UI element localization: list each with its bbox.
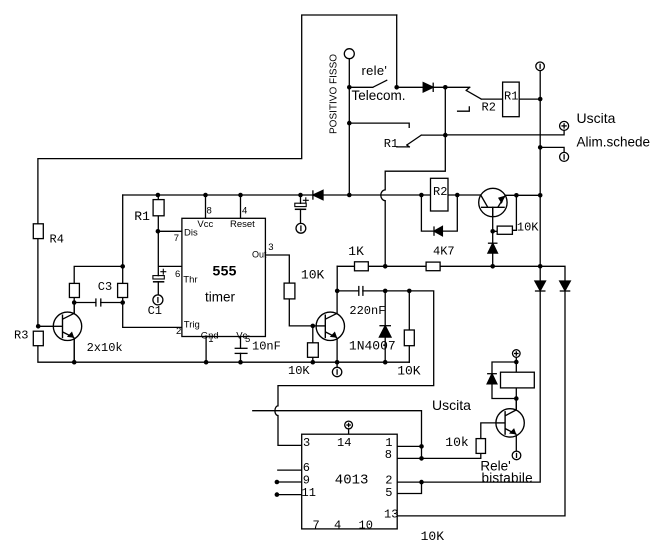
svg-text:555: 555 <box>213 263 237 279</box>
svg-text:10k: 10k <box>445 435 469 450</box>
svg-text:10K: 10K <box>517 221 539 235</box>
svg-text:Thr: Thr <box>183 275 197 286</box>
svg-text:R2: R2 <box>433 185 447 199</box>
svg-text:Reset: Reset <box>230 219 255 230</box>
svg-text:2x10k: 2x10k <box>87 341 123 355</box>
svg-text:R2: R2 <box>482 101 496 115</box>
svg-text:R4: R4 <box>50 233 64 247</box>
svg-text:Vcc: Vcc <box>197 219 213 230</box>
svg-text:Alim.schede: Alim.schede <box>577 135 651 150</box>
svg-text:3: 3 <box>268 242 273 253</box>
svg-text:R1: R1 <box>134 209 150 224</box>
svg-text:10nF: 10nF <box>252 340 281 354</box>
svg-text:R3: R3 <box>14 329 28 343</box>
svg-text:1: 1 <box>208 334 213 345</box>
svg-text:timer: timer <box>205 290 236 305</box>
svg-text:1N4007: 1N4007 <box>349 339 396 354</box>
svg-text:7: 7 <box>174 233 179 244</box>
svg-text:8: 8 <box>385 448 392 462</box>
svg-text:10K: 10K <box>301 268 325 283</box>
svg-text:11: 11 <box>302 486 316 500</box>
svg-text:10: 10 <box>359 519 373 533</box>
svg-text:3: 3 <box>303 436 310 450</box>
svg-text:bistabile: bistabile <box>482 470 533 485</box>
svg-text:2: 2 <box>176 326 181 337</box>
svg-text:8: 8 <box>207 206 212 217</box>
svg-text:4013: 4013 <box>335 473 369 489</box>
svg-text:Out: Out <box>252 250 267 260</box>
svg-text:R1: R1 <box>384 137 398 151</box>
svg-text:4K7: 4K7 <box>433 245 455 259</box>
svg-text:Uscita: Uscita <box>577 110 616 126</box>
svg-text:10K: 10K <box>421 529 445 544</box>
svg-text:220nF: 220nF <box>349 304 385 318</box>
svg-text:C3: C3 <box>98 280 112 294</box>
svg-text:Trig: Trig <box>184 320 200 331</box>
svg-text:7: 7 <box>313 519 320 533</box>
svg-text:POSITIVO FISSO: POSITIVO FISSO <box>329 54 340 134</box>
svg-text:10K: 10K <box>288 364 310 378</box>
svg-text:13: 13 <box>384 508 398 522</box>
svg-text:1K: 1K <box>348 244 364 259</box>
svg-text:10K: 10K <box>397 364 421 379</box>
svg-text:C1: C1 <box>148 304 162 318</box>
svg-text:Telecom.: Telecom. <box>352 88 406 103</box>
svg-text:rele': rele' <box>362 63 388 78</box>
svg-text:R1: R1 <box>504 90 518 104</box>
svg-text:14: 14 <box>337 436 351 450</box>
svg-text:Dis: Dis <box>184 228 198 239</box>
svg-text:5: 5 <box>245 334 250 345</box>
svg-text:Uscita: Uscita <box>432 397 471 413</box>
svg-text:5: 5 <box>385 486 392 500</box>
svg-text:4: 4 <box>334 519 341 533</box>
svg-text:4: 4 <box>242 206 247 217</box>
svg-text:6: 6 <box>175 269 180 280</box>
